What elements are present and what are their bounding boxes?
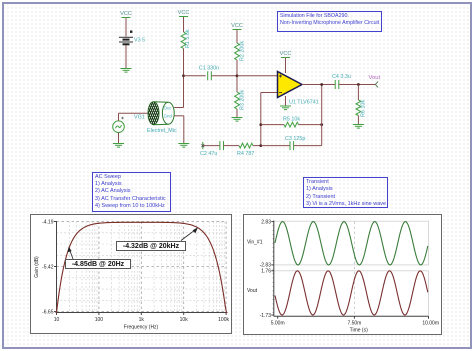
svg-text:U1 TLV6741: U1 TLV6741 xyxy=(289,100,319,106)
svg-text:Vin_#1: Vin_#1 xyxy=(247,240,263,246)
svg-text:Out: Out xyxy=(164,105,172,110)
svg-text:VCC: VCC xyxy=(231,23,243,29)
svg-text:-4.19: -4.19 xyxy=(42,219,54,225)
svg-text:R1 5.6k: R1 5.6k xyxy=(185,29,191,48)
svg-text:Vout: Vout xyxy=(247,288,258,294)
svg-text:C4 3.3u: C4 3.3u xyxy=(332,74,351,80)
svg-text:R4 787: R4 787 xyxy=(237,151,254,157)
svg-text:Vout: Vout xyxy=(369,75,381,81)
svg-text:VCC: VCC xyxy=(178,10,190,16)
svg-text:Electret_Mic: Electret_Mic xyxy=(147,128,177,134)
svg-text:-5.42: -5.42 xyxy=(42,264,54,270)
svg-text:10k: 10k xyxy=(180,317,189,323)
svg-text:1.76: 1.76 xyxy=(261,269,271,275)
svg-text:R3 200k: R3 200k xyxy=(240,90,246,110)
svg-text:VCC: VCC xyxy=(120,11,132,17)
svg-text:C2 47u: C2 47u xyxy=(200,151,217,157)
svg-text:1k: 1k xyxy=(139,317,145,323)
svg-text:Gnd: Gnd xyxy=(164,114,173,119)
svg-text:100: 100 xyxy=(95,317,104,323)
svg-text:C1 330n: C1 330n xyxy=(199,66,219,72)
svg-text:R5 10k: R5 10k xyxy=(283,116,300,122)
svg-text:100k: 100k xyxy=(218,317,229,323)
svg-text:5.00m: 5.00m xyxy=(271,321,285,327)
svg-text:10.00m: 10.00m xyxy=(422,321,439,327)
svg-text:2.83: 2.83 xyxy=(261,219,271,225)
svg-text:7.50m: 7.50m xyxy=(347,321,361,327)
svg-text:V3 5: V3 5 xyxy=(134,38,145,44)
svg-text:R2 200k: R2 200k xyxy=(240,41,246,61)
svg-text:VG1: VG1 xyxy=(134,114,145,120)
svg-text:10: 10 xyxy=(54,317,60,323)
svg-text:VCC: VCC xyxy=(280,51,292,57)
svg-text:Time (s): Time (s) xyxy=(350,328,368,334)
svg-text:-1.73: -1.73 xyxy=(260,313,272,319)
svg-text:R6 10k: R6 10k xyxy=(361,100,367,117)
svg-text:Frequency (Hz): Frequency (Hz) xyxy=(124,325,159,331)
svg-text:C3 125p: C3 125p xyxy=(285,136,305,142)
svg-text:Gain (dB): Gain (dB) xyxy=(34,256,40,278)
svg-text:-6.65: -6.65 xyxy=(42,309,54,315)
